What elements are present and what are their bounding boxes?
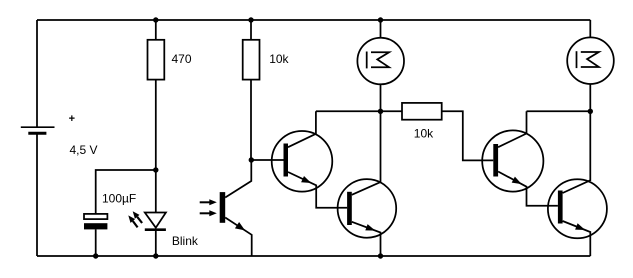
transistor Q1 collector: [288, 111, 316, 147]
node A junction R1/LED/C1: [153, 167, 158, 172]
svg-text:+: +: [69, 113, 75, 125]
wire R1 bottom lead to node A: [155, 80, 157, 213]
transistor Q4 emitter: [563, 221, 591, 256]
transistor Q2 collector: [352, 111, 381, 195]
transistor Q1 base bar: [284, 144, 289, 177]
transistor Q2 base bar: [347, 192, 352, 225]
node junction C1 / bottom rail: [93, 253, 98, 258]
svg-text:4,5 V: 4,5 V: [70, 143, 98, 157]
node junction top rail / R1: [153, 17, 158, 22]
wire R2 bottom lead to node B: [250, 80, 252, 160]
transistor Q1 emitter: [288, 172, 347, 208]
phototransistor T1 emitter arrow: [235, 222, 245, 230]
phototransistor T1 collector wire: [225, 160, 251, 198]
wire Q3 collector to motor2 node: [527, 110, 591, 112]
phototransistor T1 emitter wire: [225, 218, 252, 257]
node junction Q2 emitter / bottom rail: [378, 253, 383, 258]
transistor Q3 emitter arrow: [512, 177, 522, 185]
wire R3 to Q3 base: [442, 111, 494, 160]
svg-text:10k: 10k: [414, 127, 434, 141]
transistor Q1 circle: [272, 131, 333, 192]
wire Q1 collector to motor1 node: [316, 110, 381, 112]
wire LED cathode to bottom rail: [155, 230, 157, 256]
node motor1 junction: [378, 109, 383, 114]
resistor R1 470: [148, 40, 165, 80]
transistor Q3 collector: [498, 111, 526, 147]
wire node A to capacitor: [96, 170, 156, 214]
transistor Q3 circle: [482, 130, 543, 191]
node junction top rail / R2: [248, 17, 253, 22]
transistor Q4 collector: [563, 111, 591, 193]
transistor Q3 emitter: [498, 172, 558, 206]
LED D1 emission arrow 2: [128, 215, 137, 227]
transistor Q4 circle: [548, 179, 607, 238]
node B junction R2 / T1 collector / Q1 base: [249, 157, 254, 162]
wire node B to Q1 base: [251, 159, 283, 161]
svg-text:470: 470: [172, 52, 192, 66]
wire bottom rail: [37, 255, 590, 257]
phototransistor T1 base bar: [220, 192, 226, 223]
motor M1: [357, 38, 404, 85]
wire motor M1 top lead: [380, 20, 382, 38]
resistor R2 10k: [243, 40, 260, 80]
transistor Q1 emitter arrow: [301, 176, 311, 183]
node junction top rail / M1: [378, 17, 383, 22]
LED D1 emission arrow 1: [133, 211, 142, 223]
wire 470 resistor top lead: [155, 20, 157, 40]
wire motor1 node to R3: [381, 110, 403, 112]
battery B1 4,5V: [21, 127, 55, 133]
transistor Q2 circle: [338, 179, 397, 238]
LED D1 Blink: [145, 213, 166, 230]
wire left vertical (battery minus lead): [36, 133, 38, 256]
node junction LED / bottom rail: [153, 253, 158, 258]
transistor Q2 emitter: [352, 222, 381, 256]
wire 10k resistor top lead: [250, 20, 252, 40]
wire C1 bottom lead: [95, 229, 97, 256]
capacitor C1 100µF: [84, 214, 107, 230]
phototransistor T1 light arrow 1: [200, 199, 217, 205]
transistor Q4 emitter arrow: [575, 223, 585, 230]
transistor Q2 emitter arrow: [365, 224, 375, 231]
resistor R3 10k: [402, 103, 442, 120]
svg-text:Blink: Blink: [172, 234, 199, 248]
transistor Q4 base bar: [558, 191, 563, 224]
wire motor M2 top lead: [589, 20, 591, 37]
wire motor M2 bottom lead: [589, 84, 591, 111]
transistor Q3 base bar: [493, 144, 498, 177]
wire left vertical (battery plus lead): [36, 20, 38, 127]
svg-text:10k: 10k: [269, 52, 289, 66]
svg-text:100µF: 100µF: [102, 191, 136, 205]
wire top rail: [37, 19, 590, 21]
wire motor M1 bottom lead: [380, 84, 382, 111]
node motor2 junction: [588, 109, 593, 114]
phototransistor T1 light arrow 2: [200, 210, 217, 216]
motor M2: [567, 37, 614, 84]
